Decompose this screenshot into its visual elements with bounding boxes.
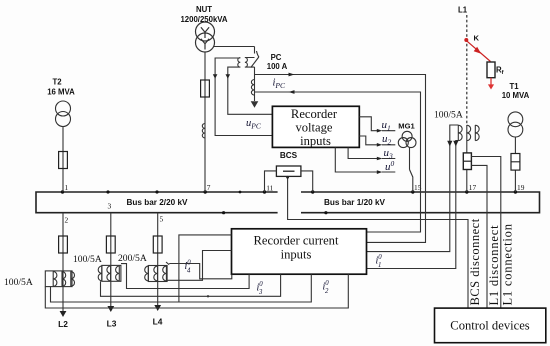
svg-text:L2: L2 [58, 319, 68, 329]
svg-text:Rf: Rf [496, 66, 504, 77]
svg-text:i02: i02 [323, 280, 330, 295]
svg-text:u2: u2 [382, 133, 392, 147]
svg-text:iPC: iPC [273, 78, 287, 91]
svg-text:L1 disconnect: L1 disconnect [487, 225, 501, 306]
svg-text:17: 17 [469, 183, 477, 192]
svg-text:100/5A: 100/5A [434, 110, 463, 121]
svg-text:200/5A: 200/5A [118, 253, 147, 264]
svg-text:inputs: inputs [281, 248, 312, 262]
svg-text:L1: L1 [458, 6, 468, 15]
svg-text:10 MVA: 10 MVA [502, 91, 530, 100]
svg-text:Recorder current: Recorder current [254, 234, 339, 248]
svg-text:T2: T2 [52, 78, 62, 87]
svg-text:L3: L3 [107, 319, 117, 329]
svg-text:K: K [474, 34, 480, 43]
svg-text:voltage: voltage [295, 121, 332, 135]
svg-text:T1: T1 [509, 82, 519, 91]
svg-text:11: 11 [266, 184, 273, 193]
svg-text:i01: i01 [376, 254, 383, 269]
svg-text:BCS disconnect: BCS disconnect [468, 218, 482, 305]
svg-text:Bus bar 2/20 kV: Bus bar 2/20 kV [127, 198, 189, 207]
svg-text:3: 3 [108, 202, 112, 211]
svg-text:Bus bar 1/20 kV: Bus bar 1/20 kV [324, 198, 386, 207]
svg-text:L4: L4 [153, 317, 163, 327]
svg-text:19: 19 [517, 183, 525, 192]
svg-text:NUT: NUT [196, 5, 212, 14]
svg-text:BCS: BCS [280, 151, 298, 160]
svg-text:MG1: MG1 [398, 122, 415, 131]
svg-text:5: 5 [160, 215, 164, 224]
svg-text:100/5A: 100/5A [73, 254, 102, 265]
svg-text:1: 1 [65, 183, 69, 192]
svg-text:u0: u0 [385, 159, 395, 173]
svg-text:7: 7 [207, 183, 211, 192]
svg-text:u1: u1 [382, 119, 391, 133]
svg-text:100 A: 100 A [267, 62, 288, 71]
svg-text:uPC: uPC [246, 118, 262, 131]
svg-text:Recorder: Recorder [291, 107, 338, 121]
svg-text:inputs: inputs [300, 134, 331, 148]
svg-text:PC: PC [271, 53, 282, 62]
svg-text:100/5A: 100/5A [4, 277, 33, 288]
svg-text:i03: i03 [257, 281, 264, 296]
svg-text:2: 2 [65, 216, 69, 225]
svg-text:L1 connection: L1 connection [501, 223, 515, 305]
svg-text:Control devices: Control devices [450, 319, 529, 333]
svg-text:16 MVA: 16 MVA [47, 88, 75, 97]
svg-text:i04: i04 [185, 260, 192, 275]
